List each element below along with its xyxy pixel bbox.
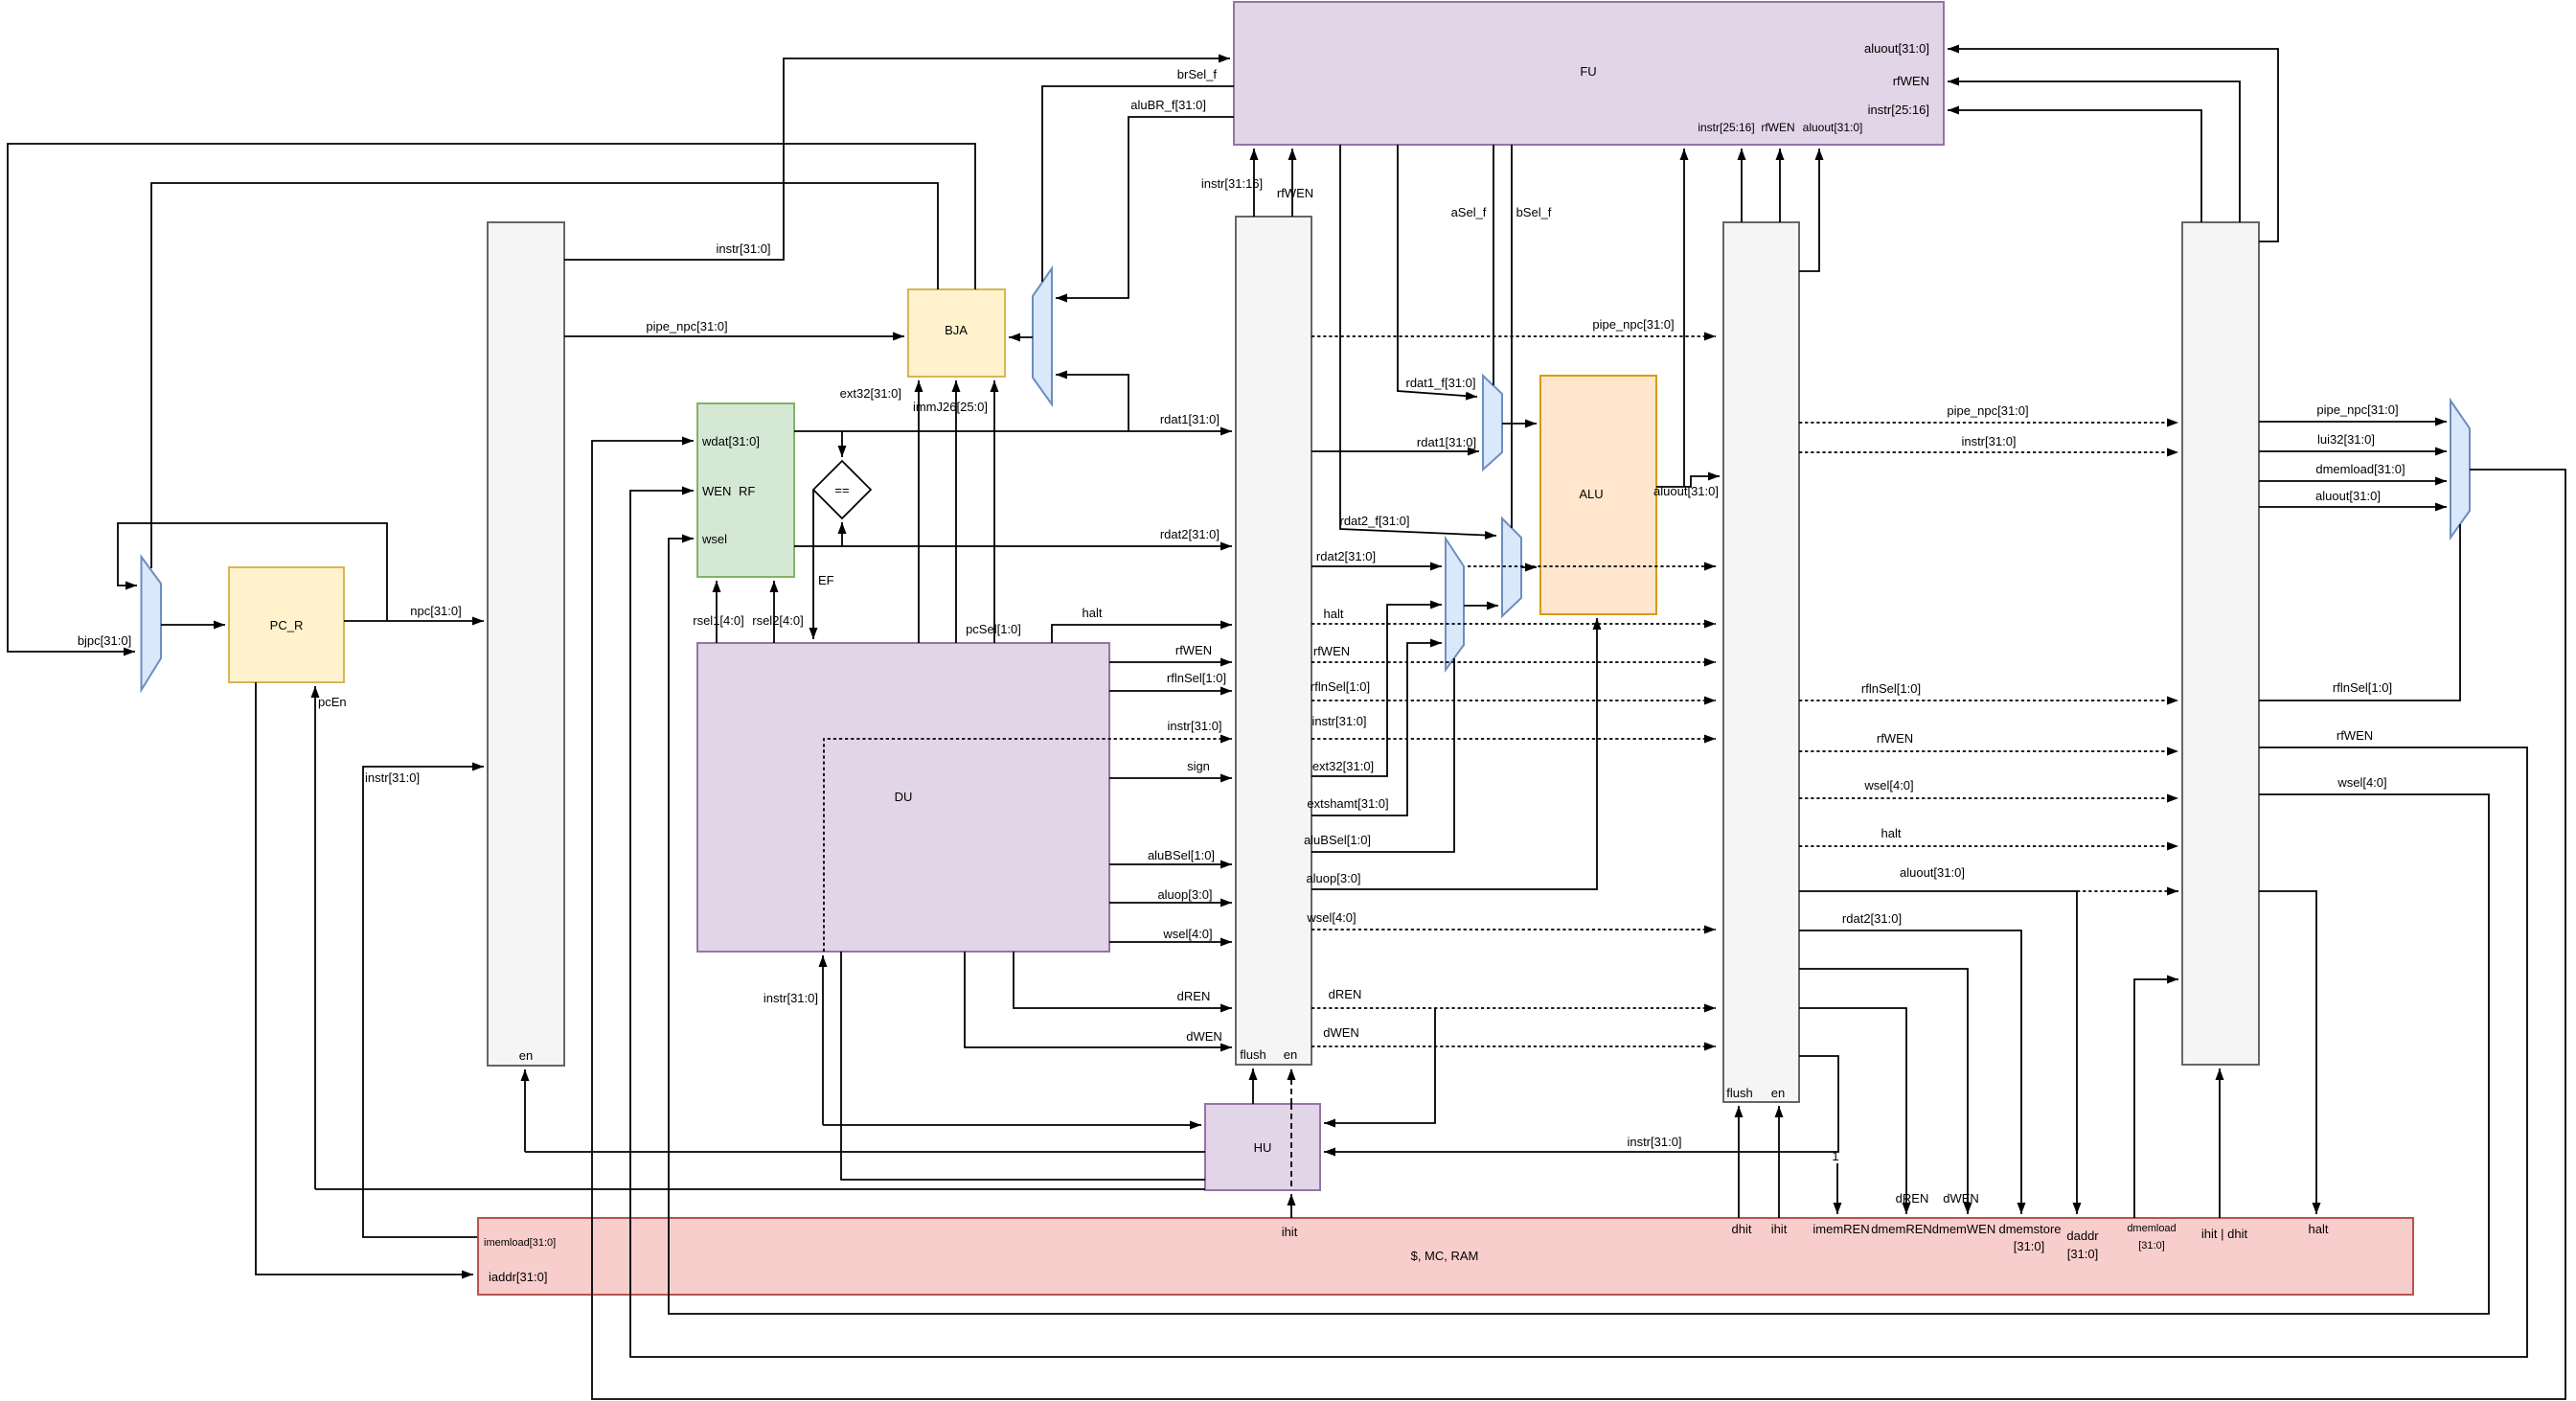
svg-text:pipe_npc[31:0]: pipe_npc[31:0] — [1947, 403, 2028, 418]
svg-text:dhit: dhit — [1732, 1222, 1752, 1236]
svg-text:rsel2[4:0]: rsel2[4:0] — [752, 613, 803, 628]
svg-text:rfWEN: rfWEN — [1277, 186, 1313, 200]
svg-text:instr[31:0]: instr[31:0] — [1167, 719, 1221, 733]
svg-text:dmemload: dmemload — [2127, 1223, 2176, 1234]
svg-text:rsel1[4:0]: rsel1[4:0] — [693, 613, 743, 628]
svg-text:imemload[31:0]: imemload[31:0] — [484, 1237, 556, 1249]
svg-text:instr[31:0]: instr[31:0] — [365, 770, 420, 785]
svg-text:instr[31:0]: instr[31:0] — [1627, 1135, 1681, 1149]
svg-text:pipe_npc[31:0]: pipe_npc[31:0] — [646, 319, 727, 333]
svg-text:wsel[4:0]: wsel[4:0] — [1162, 927, 1212, 941]
svg-text:instr[31:0]: instr[31:0] — [764, 991, 818, 1005]
svg-text:[31:0]: [31:0] — [2067, 1247, 2099, 1261]
svg-text:$, MC, RAM: $, MC, RAM — [1411, 1249, 1479, 1263]
svg-text:pcSel[1:0]: pcSel[1:0] — [966, 622, 1021, 636]
svg-text:ALU: ALU — [1579, 487, 1603, 501]
svg-text:daddr: daddr — [2066, 1229, 2099, 1243]
svg-text:aluBSel[1:0]: aluBSel[1:0] — [1148, 848, 1215, 862]
svg-text:instr[31:0]: instr[31:0] — [1311, 714, 1366, 728]
svg-text:brSel_f: brSel_f — [1177, 67, 1218, 81]
svg-text:FU: FU — [1580, 64, 1596, 79]
svg-text:aluout[31:0]: aluout[31:0] — [1900, 865, 1965, 880]
svg-text:instr[25:16]: instr[25:16] — [1868, 103, 1929, 117]
svg-text:pipe_npc[31:0]: pipe_npc[31:0] — [2316, 402, 2398, 417]
svg-text:en: en — [1284, 1047, 1297, 1062]
svg-text:DU: DU — [895, 790, 913, 804]
svg-text:rflnSel[1:0]: rflnSel[1:0] — [1861, 681, 1921, 696]
svg-text:aluop[3:0]: aluop[3:0] — [1157, 887, 1212, 902]
svg-text:halt: halt — [1881, 826, 1902, 840]
svg-text:immJ26[25:0]: immJ26[25:0] — [913, 400, 988, 414]
svg-text:rfWEN: rfWEN — [1761, 121, 1794, 134]
svg-text:ext32[31:0]: ext32[31:0] — [1312, 759, 1374, 773]
svg-text:wsel[4:0]: wsel[4:0] — [1863, 778, 1913, 792]
svg-text:[31:0]: [31:0] — [2138, 1240, 2165, 1252]
svg-text:rflnSel[1:0]: rflnSel[1:0] — [1311, 679, 1370, 694]
svg-text:aluBSel[1:0]: aluBSel[1:0] — [1304, 833, 1371, 847]
svg-text:dREN: dREN — [1896, 1191, 1929, 1206]
svg-text:wsel: wsel — [701, 532, 727, 546]
svg-text:dWEN: dWEN — [1943, 1191, 1979, 1206]
svg-text:RF: RF — [739, 484, 755, 498]
svg-text:dmemstore: dmemstore — [1998, 1222, 2061, 1236]
svg-text:instr[25:16]: instr[25:16] — [1698, 121, 1754, 134]
svg-text:ext32[31:0]: ext32[31:0] — [840, 386, 901, 401]
svg-text:extshamt[31:0]: extshamt[31:0] — [1307, 796, 1388, 811]
svg-text:dmemREN: dmemREN — [1871, 1222, 1932, 1236]
svg-text:HU: HU — [1254, 1140, 1272, 1155]
svg-text:rdat2[31:0]: rdat2[31:0] — [1160, 527, 1220, 541]
svg-text:instr[31:0]: instr[31:0] — [716, 241, 770, 256]
svg-text:==: == — [834, 483, 849, 497]
svg-text:rdat1_f[31:0]: rdat1_f[31:0] — [1406, 376, 1476, 390]
svg-text:rflnSel[1:0]: rflnSel[1:0] — [2333, 680, 2392, 695]
svg-text:WEN: WEN — [702, 484, 731, 498]
svg-text:aluout[31:0]: aluout[31:0] — [2315, 489, 2381, 503]
svg-text:aluout[31:0]: aluout[31:0] — [1653, 484, 1719, 498]
svg-text:rflnSel[1:0]: rflnSel[1:0] — [1167, 671, 1226, 685]
svg-text:aluout[31:0]: aluout[31:0] — [1803, 121, 1863, 134]
svg-text:npc[31:0]: npc[31:0] — [410, 604, 462, 618]
svg-text:aSel_f: aSel_f — [1451, 205, 1487, 219]
svg-text:pcEn: pcEn — [318, 695, 347, 709]
svg-text:rdat2[31:0]: rdat2[31:0] — [1842, 911, 1902, 926]
svg-text:dWEN: dWEN — [1186, 1029, 1222, 1044]
svg-text:rdat1[31:0]: rdat1[31:0] — [1417, 435, 1476, 449]
svg-text:flush: flush — [1726, 1086, 1752, 1100]
svg-text:en: en — [519, 1048, 533, 1063]
svg-text:PC_R: PC_R — [270, 618, 304, 632]
svg-text:wdat[31:0]: wdat[31:0] — [701, 434, 760, 448]
svg-text:instr[31:0]: instr[31:0] — [1961, 434, 2016, 448]
svg-text:dmemWEN: dmemWEN — [1932, 1222, 1995, 1236]
svg-text:sign: sign — [1187, 759, 1210, 773]
svg-text:halt: halt — [1083, 606, 1103, 620]
svg-text:en: en — [1771, 1086, 1785, 1100]
svg-text:[31:0]: [31:0] — [2014, 1239, 2045, 1253]
svg-text:rfWEN: rfWEN — [1877, 731, 1913, 746]
svg-text:iaddr[31:0]: iaddr[31:0] — [489, 1270, 547, 1284]
svg-text:halt: halt — [1324, 607, 1344, 621]
svg-text:rfWEN: rfWEN — [1893, 74, 1929, 88]
svg-text:dmemload[31:0]: dmemload[31:0] — [2315, 462, 2405, 476]
svg-text:ihit | dhit: ihit | dhit — [2201, 1227, 2248, 1241]
svg-text:BJA: BJA — [945, 323, 968, 337]
svg-text:aluBR_f[31:0]: aluBR_f[31:0] — [1130, 98, 1206, 112]
svg-text:instr[31:16]: instr[31:16] — [1201, 176, 1263, 191]
svg-text:aluop[3:0]: aluop[3:0] — [1306, 871, 1360, 885]
svg-text:halt: halt — [2309, 1222, 2329, 1236]
svg-text:flush: flush — [1240, 1047, 1265, 1062]
svg-text:rdat2_f[31:0]: rdat2_f[31:0] — [1340, 514, 1410, 528]
svg-text:bjpc[31:0]: bjpc[31:0] — [78, 633, 131, 648]
svg-text:imemREN: imemREN — [1812, 1222, 1869, 1236]
svg-text:wsel[4:0]: wsel[4:0] — [2337, 775, 2386, 790]
svg-text:rdat2[31:0]: rdat2[31:0] — [1316, 549, 1376, 563]
svg-text:bSel_f: bSel_f — [1516, 205, 1552, 219]
svg-text:dREN: dREN — [1177, 989, 1211, 1003]
svg-text:dREN: dREN — [1329, 987, 1362, 1001]
svg-text:ihit: ihit — [1282, 1225, 1298, 1239]
svg-text:pipe_npc[31:0]: pipe_npc[31:0] — [1592, 317, 1674, 332]
svg-text:rdat1[31:0]: rdat1[31:0] — [1160, 412, 1220, 426]
svg-text:ihit: ihit — [1771, 1222, 1788, 1236]
svg-text:wsel[4:0]: wsel[4:0] — [1306, 910, 1356, 925]
svg-text:rfWEN: rfWEN — [1175, 643, 1212, 657]
svg-text:dWEN: dWEN — [1323, 1025, 1359, 1040]
svg-text:aluout[31:0]: aluout[31:0] — [1864, 41, 1929, 56]
svg-text:rfWEN: rfWEN — [1313, 644, 1350, 658]
svg-text:lui32[31:0]: lui32[31:0] — [2317, 432, 2375, 447]
svg-text:rfWEN: rfWEN — [2337, 728, 2373, 743]
svg-text:EF: EF — [818, 573, 834, 587]
svg-text:1: 1 — [1832, 1149, 1838, 1163]
